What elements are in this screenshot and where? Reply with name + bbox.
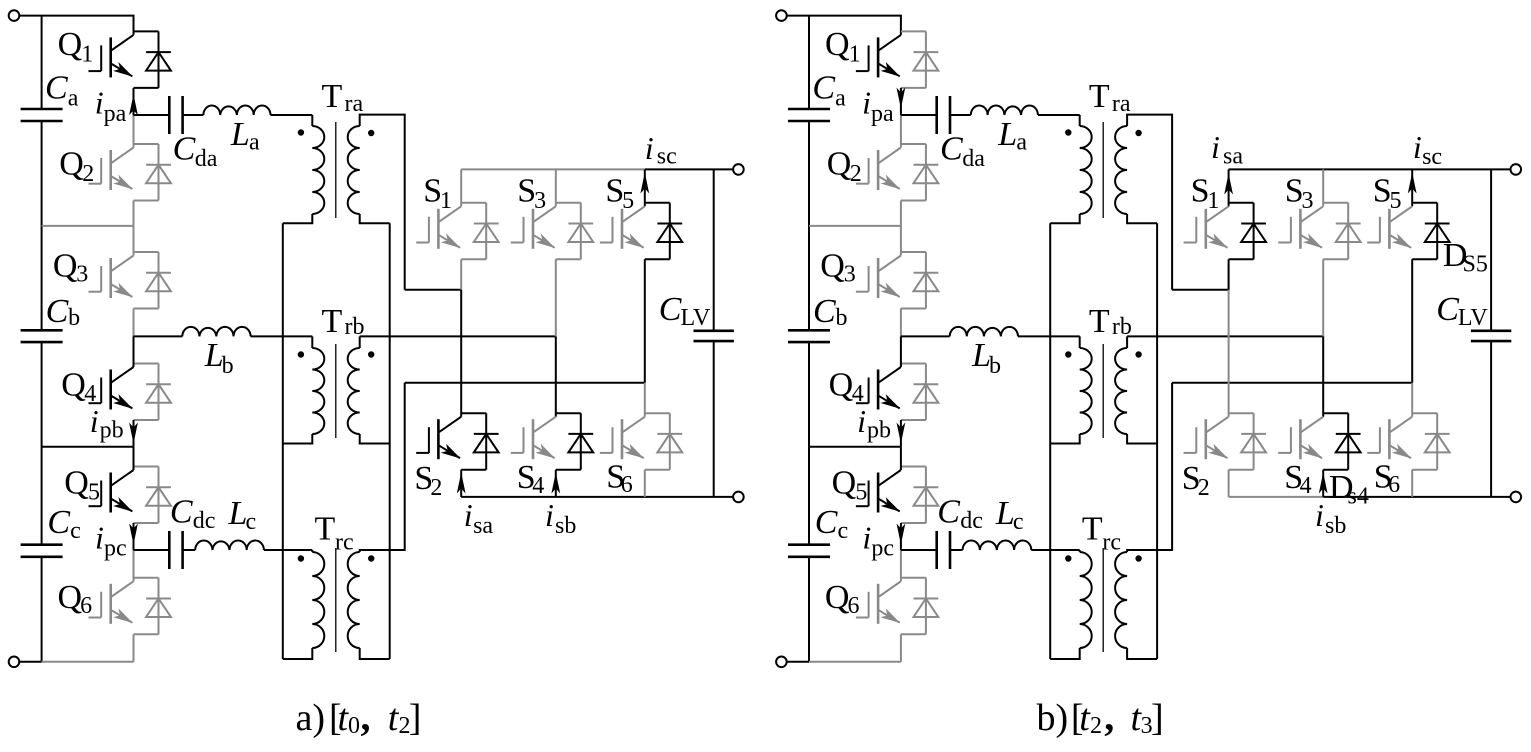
wire Q1 emitter stub [901, 87, 926, 89]
svg-text:Q: Q [58, 579, 83, 616]
wire S4 emitter to bus [1322, 470, 1324, 497]
diode DQ3 (antiparallel) [146, 252, 171, 309]
transistor S6 (IGBT) [1367, 417, 1412, 460]
polarity dot Trc primary [1065, 555, 1071, 561]
wire Q2 emitter stub [901, 200, 926, 202]
svg-text:i: i [862, 520, 871, 556]
wire S2 emitter to bus [1228, 470, 1230, 497]
wire S5 emitter stub [645, 258, 670, 260]
svg-text:rc: rc [1102, 530, 1121, 556]
svg-text:rc: rc [335, 530, 354, 556]
wire S3 emitter to node sb [1322, 259, 1324, 336]
inductor La [971, 105, 1038, 115]
svg-text:T: T [322, 303, 343, 340]
svg-text:da: da [195, 146, 218, 172]
wire Trc secondary bottom lead [1127, 648, 1157, 659]
current arrow isa (up) [1224, 174, 1233, 195]
diode DS1 (antiparallel) [474, 203, 499, 259]
transistor Q2 (IGBT) [89, 148, 134, 191]
wire secondary neutral [1156, 223, 1158, 659]
transformer Trb core [1102, 344, 1104, 438]
wire Q4 emitter stub [901, 419, 926, 421]
diode DQ5 (antiparallel) [914, 467, 939, 524]
wire node sc to S6 [644, 383, 646, 417]
wire Tra secondary top lead [1127, 115, 1172, 290]
terminal (-) output a [733, 492, 744, 503]
wire secondary phase c [405, 382, 645, 384]
wire Q3 emitter stub [134, 308, 159, 310]
transformer Trc primary winding [312, 552, 324, 648]
svg-text:,: , [361, 694, 371, 739]
svg-text:da: da [962, 146, 985, 172]
svg-text:pc: pc [871, 536, 894, 562]
current arrow ipc (down) [897, 524, 906, 545]
svg-text:C: C [812, 70, 835, 107]
svg-text:b: b [836, 305, 848, 331]
wire node ipa to Cda [901, 114, 937, 116]
wire Trb secondary bottom lead [1127, 434, 1157, 444]
wire Trb primary top lead [1079, 336, 1081, 348]
svg-text:6: 6 [1388, 472, 1400, 498]
svg-text:S5: S5 [1463, 252, 1488, 278]
wire Trb primary top lead [311, 336, 313, 348]
transformer Tra secondary winding [1115, 126, 1127, 214]
svg-text:C: C [46, 293, 69, 330]
wire midpoint1 to Q3 [133, 226, 135, 256]
wire top rail [787, 16, 901, 35]
svg-text:L: L [997, 116, 1017, 153]
svg-text:dc: dc [193, 508, 216, 534]
capacitor Ca [788, 109, 830, 121]
wire S4 collector stub [1323, 412, 1348, 414]
capacitor Ca [21, 109, 63, 121]
wire Tra primary top lead [1079, 115, 1081, 126]
wire Trb secondary top lead [1126, 336, 1128, 348]
svg-text:]: ] [1151, 697, 1164, 739]
wire Tra secondary top lead [360, 115, 405, 290]
current arrow ipb (down) [129, 423, 138, 444]
wire S2 collector stub [1229, 412, 1254, 414]
svg-text:6: 6 [848, 593, 860, 619]
current arrow isb (up) [551, 473, 560, 494]
transistor S3 (IGBT) [1278, 206, 1323, 249]
svg-text:4: 4 [1300, 473, 1312, 499]
diode DS2 (antiparallel) [1241, 413, 1266, 470]
terminal (+) output a [733, 164, 744, 175]
wire secondary neutral [389, 223, 391, 659]
wire node sc to S6 [1411, 383, 1413, 417]
terminal (+) output b [1511, 164, 1522, 175]
transformer Tra core [335, 122, 337, 218]
wire Cdc to Lc [183, 549, 196, 551]
svg-text:i: i [1315, 497, 1324, 533]
wire Trb primary bottom lead [283, 434, 313, 444]
svg-text:i: i [862, 85, 871, 121]
svg-text:dc: dc [960, 508, 983, 534]
diode DS5 (antiparallel) [657, 203, 682, 259]
svg-text:i: i [545, 497, 554, 533]
wire bus to CLV [713, 169, 715, 330]
svg-text:i: i [90, 403, 99, 439]
wire Trc primary bottom lead [283, 648, 313, 659]
transformer Trb core [335, 344, 337, 438]
polarity dot Tra secondary [368, 130, 374, 136]
wire S4 collector stub [556, 412, 581, 414]
wire Tra primary bottom lead [1050, 214, 1080, 223]
wire Q4 emitter stub [134, 419, 159, 421]
svg-text:b: b [222, 353, 234, 379]
svg-text:5: 5 [88, 480, 100, 506]
inductor La [203, 105, 270, 115]
transformer Trc secondary winding [348, 552, 360, 648]
wire rail to Ca [808, 16, 810, 109]
wire top rail [19, 16, 133, 35]
wire Tra primary top lead [311, 115, 313, 126]
capacitor Cda [169, 96, 182, 134]
wire node ipa to Q2 [900, 115, 902, 148]
wire Q4 emitter to midpoint2 [900, 420, 902, 447]
wire Q2 emitter to midpoint1 [133, 201, 135, 226]
wire Cda to La [183, 114, 204, 116]
svg-text:Q: Q [59, 145, 84, 182]
svg-text:a: a [1016, 130, 1027, 156]
diode DS6 (antiparallel) [657, 413, 682, 470]
svg-text:C: C [47, 504, 70, 541]
wire S6 emitter stub [1412, 469, 1437, 471]
transistor S4 (IGBT) [511, 417, 556, 460]
transistor Q4 (IGBT) [89, 367, 134, 410]
svg-text:C: C [815, 504, 838, 541]
diode DQ6 (antiparallel) [146, 578, 171, 635]
wire node sb to S4 [1322, 336, 1324, 416]
transistor S5 (IGBT) [1367, 206, 1412, 249]
wire Lc to Trc [264, 549, 312, 551]
svg-text:ra: ra [1112, 91, 1131, 117]
svg-text:i: i [645, 130, 654, 166]
transistor S3 (IGBT) [511, 206, 556, 249]
svg-text:i: i [95, 520, 104, 556]
transistor S5 (IGBT) [600, 206, 645, 249]
current arrow ipa (down) [897, 88, 906, 109]
svg-text:pb: pb [867, 418, 891, 444]
terminal (+) input b [776, 10, 787, 21]
svg-text:Q: Q [53, 247, 78, 284]
diode DS2 (antiparallel) [474, 413, 499, 470]
diode DQ2 (antiparallel) [914, 144, 939, 201]
transistor Q1 (IGBT) [89, 35, 134, 78]
wire Cdc to Lc [950, 549, 963, 551]
wire S1 emitter stub [1229, 258, 1254, 260]
transformer Trc core [335, 548, 337, 652]
diode DS4 (antiparallel) [568, 413, 593, 470]
wire Trc primary bottom lead [1050, 648, 1080, 659]
wire S2 emitter stub [1229, 469, 1254, 471]
transistor Q6 (IGBT) [856, 581, 901, 624]
polarity dot Trb primary [298, 351, 304, 357]
svg-text:pa: pa [871, 101, 894, 127]
wire Ca/Cb junction to leg [809, 225, 901, 227]
current arrow isa (up) [457, 473, 466, 494]
diode DQ1 (antiparallel) [914, 31, 939, 88]
capacitor Cda [937, 96, 950, 134]
wire Q6 emitter stub [901, 633, 926, 635]
capacitor Cc [21, 545, 63, 557]
wire node b to Lb [134, 335, 183, 337]
terminal (-) input b [776, 657, 787, 668]
wire node b to Q4 [900, 336, 902, 367]
wire Tra primary bottom lead [283, 214, 313, 223]
wire Cb/Cc junction to leg [809, 446, 901, 448]
capacitor CLV [694, 331, 734, 341]
wire Trc secondary top lead [1127, 383, 1172, 552]
wire Ca to Cb [808, 121, 810, 330]
wire Q5 collector stub [134, 466, 159, 468]
wire Q5 emitter to node c [133, 523, 135, 550]
wire node b to Lb [901, 335, 950, 337]
wire bus to S1 [460, 169, 462, 206]
wire secondary phase b [360, 335, 556, 337]
transistor S4 (IGBT) [1278, 417, 1323, 460]
wire Q3 emitter stub [901, 308, 926, 310]
wire S6 collector stub [645, 412, 670, 414]
svg-text:Q: Q [825, 26, 850, 63]
diode DQ3 (antiparallel) [914, 252, 939, 309]
wire Trb secondary bottom lead [360, 434, 390, 444]
wire Q2 emitter to midpoint1 [900, 201, 902, 226]
svg-text:c: c [1013, 509, 1024, 535]
transistor Q6 (IGBT) [89, 581, 134, 624]
svg-text:C: C [173, 131, 196, 168]
svg-text:i: i [464, 497, 473, 533]
wire secondary phase b [1127, 335, 1323, 337]
transformer Tra core [1102, 122, 1104, 218]
wire bus to S3 [555, 169, 557, 206]
wire S3 emitter stub [556, 258, 581, 260]
svg-text:a): a) [296, 697, 326, 739]
wire S1 collector stub [1229, 202, 1254, 204]
inductor Lb [182, 327, 250, 337]
svg-text:c: c [838, 518, 849, 544]
wire Q1 collector stub [134, 30, 159, 32]
wire S6 emitter to bus [1411, 470, 1413, 497]
transformer Trc primary winding [1080, 552, 1092, 648]
svg-text:b): b) [1037, 697, 1069, 739]
wire node ipa to Q2 [133, 115, 135, 148]
svg-text:sb: sb [1325, 513, 1346, 539]
current arrow isc (up) [1408, 173, 1417, 194]
wire Tra secondary bottom lead [360, 214, 390, 223]
wire bus to S3 [1322, 169, 1324, 206]
polarity dot Tra secondary [1135, 130, 1141, 136]
wire Ca to Cb [41, 121, 43, 330]
wire Trb primary bottom lead [1050, 434, 1080, 444]
wire bottom rail [787, 661, 809, 663]
wire bottom bus [1323, 496, 1510, 498]
wire S3 emitter to node sb [555, 259, 557, 336]
svg-text:6: 6 [621, 472, 633, 498]
wire S6 emitter stub [645, 469, 670, 471]
wire Q5 emitter stub [901, 522, 926, 524]
current arrow isc (up) [640, 173, 649, 194]
diode DS6 (antiparallel) [1425, 413, 1450, 470]
wire S1 emitter to node sa [460, 259, 462, 290]
wire Q4 emitter to midpoint2 [133, 420, 135, 447]
wire Q1 emitter to node ipa [133, 88, 135, 115]
wire Cb to Cc [41, 342, 43, 545]
svg-text:i: i [95, 85, 104, 121]
svg-text:]: ] [409, 697, 422, 739]
wire S1 collector stub [461, 202, 486, 204]
diode DQ6 (antiparallel) [914, 578, 939, 635]
svg-text:6: 6 [80, 593, 92, 619]
wire midpoint2 to Q5 [133, 447, 135, 470]
svg-text:0: 0 [348, 713, 360, 739]
terminal (-) output b [1511, 492, 1522, 503]
svg-text:3: 3 [844, 262, 856, 288]
wire S2 emitter to bus [460, 470, 462, 497]
svg-text:ra: ra [345, 91, 364, 117]
svg-text:a: a [835, 86, 846, 112]
wire midpoint2 to Q5 [900, 447, 902, 470]
transistor S2 (IGBT) [416, 417, 461, 460]
wire bottom rail to Q6 [809, 661, 901, 663]
wire S5 collector stub [1412, 202, 1437, 204]
wire La to Tra [1038, 114, 1080, 116]
terminal (+) input a [9, 10, 20, 21]
svg-text:3: 3 [1302, 188, 1314, 214]
polarity dot Trb primary [1065, 351, 1071, 357]
wire node c to Q6 [133, 550, 135, 581]
current arrow ipa (up) [129, 94, 138, 115]
polarity dot Trc primary [298, 555, 304, 561]
wire Cc to bottom rail [808, 557, 810, 662]
transformer Trb secondary winding [1115, 348, 1127, 434]
wire node sb to S4 [555, 336, 557, 416]
wire CLV to bottom bus [713, 341, 715, 497]
wire Q6 emitter stub [134, 633, 159, 635]
wire bottom rail to Q6 [42, 661, 134, 663]
svg-text:5: 5 [855, 480, 867, 506]
diode DQ4 (antiparallel) [914, 364, 939, 421]
transformer Tra primary winding [312, 126, 324, 214]
svg-text:T: T [322, 78, 343, 115]
wire Trc primary top lead [1079, 550, 1081, 552]
current arrow ipc (down) [129, 524, 138, 545]
wire S6 collector stub [1412, 412, 1437, 414]
svg-text:s4: s4 [1348, 484, 1369, 510]
svg-text:sa: sa [473, 513, 493, 539]
svg-text:LV: LV [1458, 305, 1488, 331]
wire Q3 emitter to node b [900, 309, 902, 337]
svg-text:3: 3 [76, 262, 88, 288]
svg-text:a: a [68, 86, 79, 112]
inductor Lb [950, 327, 1018, 337]
wire secondary phase a [405, 289, 462, 291]
svg-text:Q: Q [58, 26, 83, 63]
wire bottom bus (idle) [1229, 496, 1324, 498]
svg-text:Q: Q [832, 465, 857, 502]
wire S3 collector stub [1323, 202, 1348, 204]
svg-text:pb: pb [100, 418, 124, 444]
wire Trc secondary top lead [360, 383, 405, 552]
wire bus to S5 [644, 169, 646, 206]
current arrow ipb (down) [897, 423, 906, 444]
wire Q6 emitter to bottom rail [133, 634, 135, 662]
wire S2 collector stub [461, 412, 486, 414]
current arrow isb (up) [1319, 473, 1328, 494]
svg-text:C: C [813, 293, 836, 330]
diode DS4 (antiparallel) [1336, 413, 1361, 470]
transformer Tra secondary winding [348, 126, 360, 214]
svg-text:a: a [249, 130, 260, 156]
wire S1 emitter to node sa [1228, 259, 1230, 290]
transformer Trb secondary winding [348, 348, 360, 434]
diode DS1 (antiparallel) [1241, 203, 1266, 259]
transformer Trb primary winding [312, 348, 324, 434]
polarity dot Trb secondary [1135, 351, 1141, 357]
svg-text:T: T [1082, 511, 1103, 548]
wire bottom rail [19, 661, 41, 663]
wire Trc secondary bottom lead [360, 648, 390, 659]
capacitor Cdc [937, 531, 950, 569]
svg-text:L: L [230, 116, 250, 153]
svg-text:L: L [228, 495, 248, 532]
wire Q1 emitter to node ipa [900, 88, 902, 115]
transistor S6 (IGBT) [600, 417, 645, 460]
wire S3 emitter stub [1323, 258, 1348, 260]
wire S6 emitter to bus [644, 470, 646, 497]
svg-text:5: 5 [1390, 188, 1402, 214]
wire Q2 collector stub [901, 143, 926, 145]
wire S5 emitter to node sc [1411, 259, 1413, 382]
wire Q5 emitter to node c [900, 523, 902, 550]
wire Lc to Trc [1031, 549, 1079, 551]
wire Lb to Trb [1018, 335, 1080, 337]
inductor Lc [963, 540, 1032, 550]
svg-text:L: L [995, 495, 1015, 532]
svg-text:3: 3 [534, 188, 546, 214]
wire CLV to bottom bus [1490, 341, 1492, 497]
transistor S1 (IGBT) [1184, 206, 1229, 249]
wire bottom bus [461, 496, 733, 498]
wire Tra secondary bottom lead [1127, 214, 1157, 223]
svg-text:2: 2 [850, 161, 862, 187]
svg-text:T: T [1089, 303, 1110, 340]
wire Q5 collector stub [901, 466, 926, 468]
capacitor Cc [788, 545, 830, 557]
svg-text:C: C [170, 494, 193, 531]
svg-text:1: 1 [1207, 188, 1219, 214]
wire Trb secondary top lead [359, 336, 361, 348]
polarity dot Tra primary [298, 129, 304, 135]
svg-text:2: 2 [430, 475, 442, 501]
wire Q6 collector stub [134, 577, 159, 579]
transformer Trb primary winding [1080, 348, 1092, 434]
capacitor Cb [788, 330, 830, 342]
wire bus to CLV [1490, 169, 1492, 330]
wire Q3 emitter to node b [133, 309, 135, 337]
terminal (-) input a [9, 657, 20, 668]
svg-text:b: b [989, 353, 1001, 379]
polarity dot Trc secondary [368, 555, 374, 561]
wire Ca/Cb junction to leg [42, 225, 134, 227]
svg-text:sb: sb [555, 513, 576, 539]
transistor Q5 (IGBT) [89, 470, 134, 513]
wire Q6 emitter to bottom rail [900, 634, 902, 662]
wire primary neutral [282, 223, 284, 659]
svg-text:Q: Q [820, 247, 845, 284]
wire Q6 collector stub [901, 577, 926, 579]
